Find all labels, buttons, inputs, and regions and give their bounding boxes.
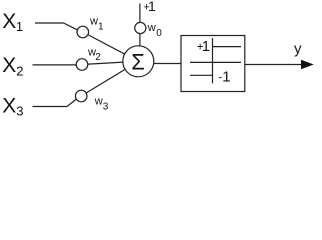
wire w3 to summation bbox=[81, 61, 138, 96]
svg-text:X: X bbox=[2, 54, 16, 77]
step function +1 level line bbox=[213, 46, 242, 48]
output arrowhead bbox=[301, 60, 314, 69]
step function -1 level line bbox=[190, 74, 213, 76]
summation node circle bbox=[123, 46, 154, 77]
svg-text:y: y bbox=[294, 41, 302, 58]
wire X2 to w2 bbox=[33, 64, 78, 66]
wire X3 to w3 bbox=[33, 99, 77, 107]
weight circle w3 bbox=[75, 90, 87, 102]
svg-text:Σ: Σ bbox=[131, 49, 145, 74]
svg-text:2: 2 bbox=[95, 52, 101, 63]
svg-text:1: 1 bbox=[202, 38, 210, 55]
activation function box bbox=[181, 36, 245, 92]
svg-text:0: 0 bbox=[156, 28, 162, 39]
wire summation to activation box bbox=[152, 63, 181, 65]
step function vertical axis bbox=[212, 38, 214, 83]
weight circle w0 bbox=[135, 22, 146, 33]
svg-text:3: 3 bbox=[16, 104, 23, 119]
svg-text:1: 1 bbox=[222, 69, 230, 86]
svg-text:1: 1 bbox=[148, 0, 156, 14]
weight circle w2 bbox=[76, 59, 88, 71]
svg-text:X: X bbox=[2, 94, 16, 117]
wire activation box to output bbox=[245, 64, 302, 66]
wire +1 bias to w0 and summation bbox=[139, 4, 141, 62]
svg-text:1: 1 bbox=[16, 19, 23, 34]
svg-text:2: 2 bbox=[16, 63, 23, 78]
wire X1 to w1 bbox=[35, 23, 78, 30]
weight circle w1 bbox=[77, 26, 89, 38]
svg-text:w: w bbox=[94, 96, 103, 108]
wire w2 to summation bbox=[82, 61, 138, 64]
svg-text:3: 3 bbox=[103, 102, 109, 113]
wire w1 to summation bbox=[83, 32, 139, 61]
step function x-axis bbox=[190, 61, 241, 63]
svg-text:w: w bbox=[89, 16, 98, 28]
svg-text:1: 1 bbox=[98, 21, 104, 32]
svg-text:X: X bbox=[2, 10, 16, 33]
svg-text:w: w bbox=[147, 22, 156, 34]
